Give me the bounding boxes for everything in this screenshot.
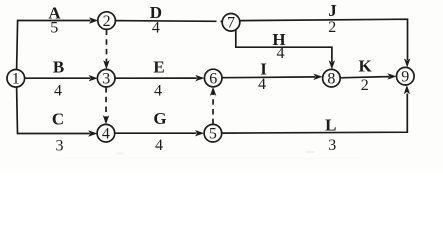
svg-text:3: 3 [56,138,64,155]
svg-text:5: 5 [209,126,217,143]
svg-text:4: 4 [258,76,266,93]
svg-text:7: 7 [227,15,235,32]
svg-text:E: E [153,58,164,77]
svg-text:2: 2 [361,77,369,94]
svg-text:K: K [358,57,372,76]
svg-text:5: 5 [50,20,58,37]
svg-text:9: 9 [401,69,409,86]
svg-text:C: C [52,109,64,128]
svg-text:3: 3 [328,137,336,154]
svg-text:J: J [328,1,337,20]
svg-text:4: 4 [102,126,110,143]
svg-text:6: 6 [209,70,217,87]
svg-text:L: L [325,116,336,135]
svg-text:4: 4 [154,83,162,100]
svg-text:2: 2 [103,13,111,30]
svg-text:2: 2 [328,19,336,36]
svg-text:1: 1 [12,71,20,88]
svg-text:G: G [153,109,166,128]
svg-text:3: 3 [102,71,110,88]
svg-text:4: 4 [277,45,285,62]
svg-text:4: 4 [155,137,163,154]
svg-text:B: B [53,57,64,76]
svg-text:4: 4 [152,20,160,37]
svg-text:4: 4 [54,82,62,99]
svg-text:8: 8 [327,71,335,88]
